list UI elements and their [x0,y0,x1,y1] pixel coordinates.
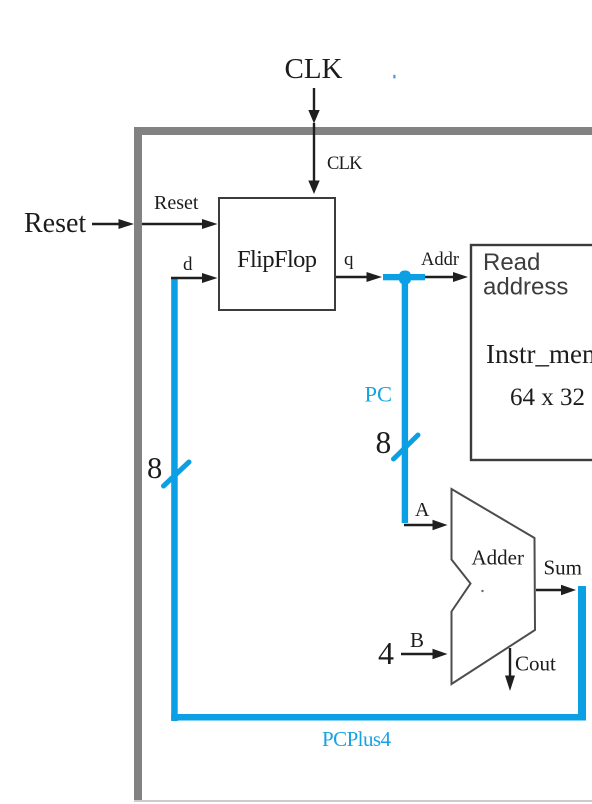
svg-text:B: B [410,628,424,652]
svg-text:CLK: CLK [285,53,343,85]
svg-text:Cout: Cout [515,652,556,676]
svg-text:Instr_mem: Instr_mem [486,339,592,369]
svg-text:Addr: Addr [421,250,459,270]
svg-text:A: A [415,499,430,521]
svg-text:PCPlus4: PCPlus4 [322,727,392,751]
svg-text:Reset: Reset [154,192,199,214]
svg-text:Sum: Sum [544,556,583,580]
svg-text:Reset: Reset [24,208,86,239]
svg-text:8: 8 [147,451,162,485]
svg-text:Adder: Adder [472,546,524,570]
svg-text:64 x 32: 64 x 32 [510,384,585,411]
svg-text:CLK: CLK [327,154,363,174]
svg-text:d: d [183,254,193,275]
svg-text:q: q [344,249,354,270]
svg-text:8: 8 [376,425,392,460]
svg-text:FlipFlop: FlipFlop [237,246,317,273]
svg-text:Read: Read [483,249,540,276]
svg-text:4: 4 [378,635,394,671]
svg-text:PC: PC [365,382,393,407]
svg-text:address: address [483,274,568,301]
